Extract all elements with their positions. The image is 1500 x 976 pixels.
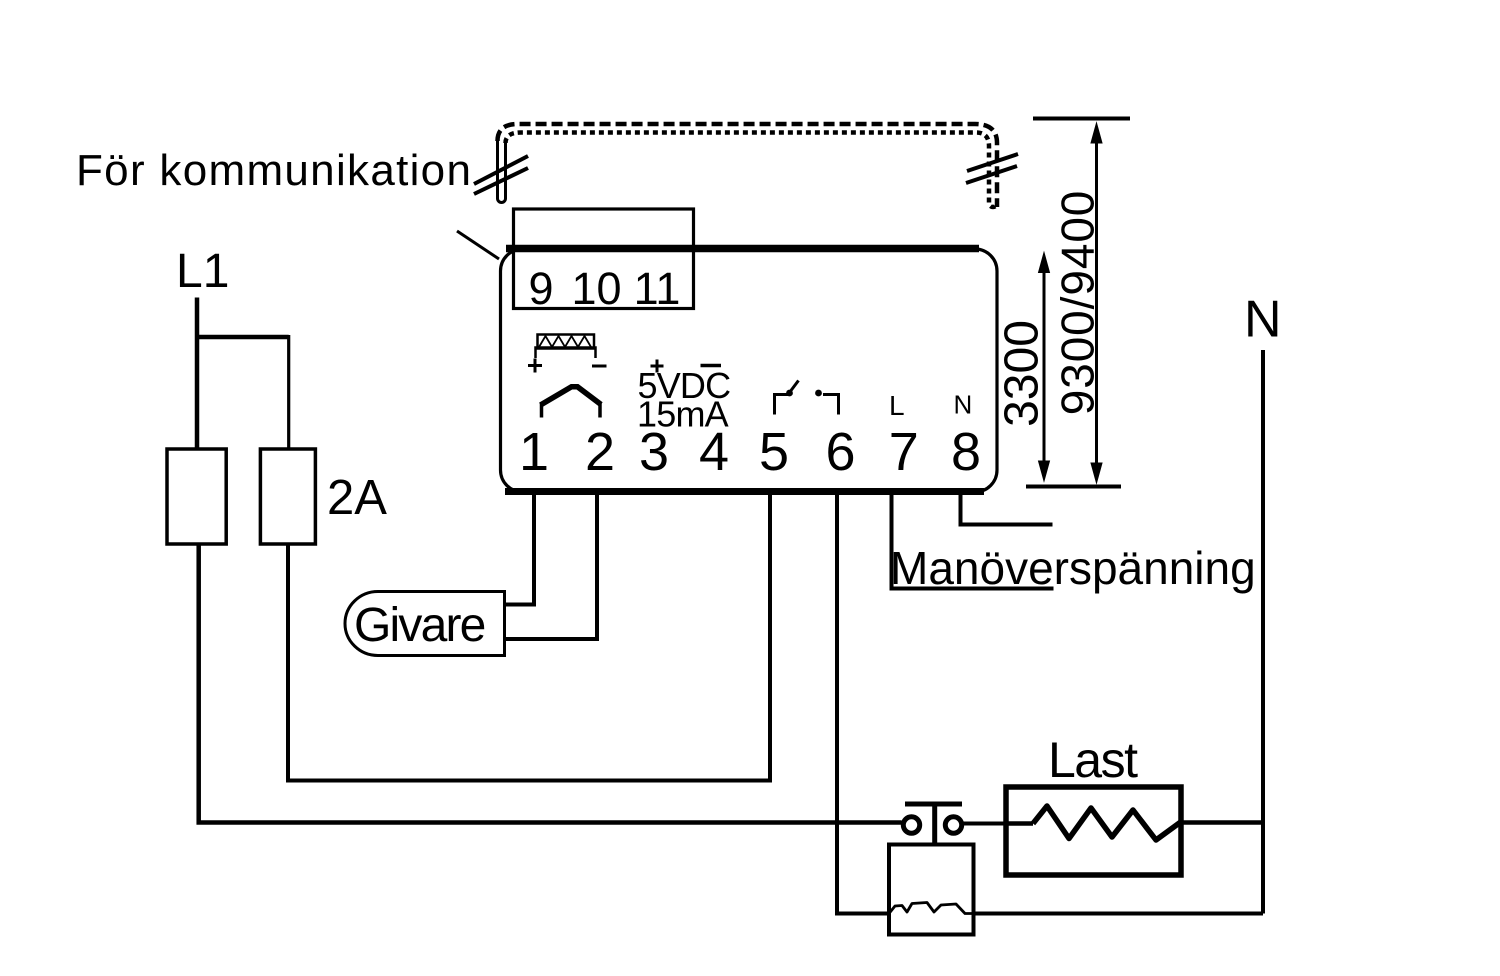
bracket under heater <box>536 348 596 359</box>
svg-text:För kommunikation: För kommunikation <box>76 146 472 195</box>
svg-text:2A: 2A <box>327 471 387 525</box>
bottom rail right of transformer to N <box>974 912 1264 916</box>
svg-text:4: 4 <box>699 422 729 482</box>
dimension top tick <box>1033 117 1130 121</box>
svg-text:9300/9400: 9300/9400 <box>1052 190 1104 416</box>
left fuse <box>167 449 226 544</box>
device box outline <box>501 249 998 492</box>
communication cable: inner dotted loop <box>506 133 998 208</box>
svg-text:7: 7 <box>889 422 919 482</box>
svg-text:2: 2 <box>585 422 615 482</box>
svg-text:1: 1 <box>519 422 549 482</box>
svg-text:3300: 3300 <box>996 320 1049 427</box>
Givare box <box>345 592 504 656</box>
svg-text:6: 6 <box>825 422 855 482</box>
shield-break slashes right <box>967 154 1018 171</box>
wire terminal 5 to right fuse <box>288 492 770 781</box>
wire terminal 2 to Givare <box>504 492 597 639</box>
inner dimension line 3300 <box>1043 258 1046 475</box>
svg-text:Last: Last <box>1048 732 1138 788</box>
svg-text:N: N <box>1244 291 1282 349</box>
communication cable: left vertical pair (solid) <box>498 140 506 203</box>
N wire <box>1261 350 1265 914</box>
svg-text:3: 3 <box>639 422 669 482</box>
transformer box <box>889 845 974 935</box>
branch wire to right fuse <box>195 335 289 340</box>
svg-text:10: 10 <box>571 263 621 314</box>
wire down to right fuse <box>287 335 290 449</box>
right fuse <box>260 449 315 544</box>
wire terminal 1 to Givare <box>504 492 534 605</box>
svg-text:8: 8 <box>951 422 981 482</box>
coil inside transformer <box>889 903 974 914</box>
svg-text:N: N <box>954 390 973 420</box>
terminal box 9 10 11 <box>514 209 694 309</box>
minus sign right <box>592 365 607 368</box>
push button contacts <box>903 817 919 833</box>
svg-text:Givare: Givare <box>354 599 485 652</box>
device thick top edge <box>506 245 979 253</box>
wire terminal 7 to underline <box>890 492 894 589</box>
dimension bottom tick <box>1026 485 1121 489</box>
minus over 5VDC <box>701 364 722 368</box>
Last load box <box>1006 787 1181 875</box>
svg-text:5: 5 <box>759 422 789 482</box>
push button T bar <box>905 804 962 845</box>
plus sign left <box>528 359 542 373</box>
relay contact over terminal 6 <box>815 390 822 397</box>
L1 wire <box>195 298 200 450</box>
wire terminal 6 down to bottom rail <box>837 492 889 914</box>
outer dimension line 9300/9400 <box>1095 130 1098 475</box>
heater rect with sawtooth <box>538 335 595 349</box>
underline of Manoverspanning <box>890 587 1054 591</box>
svg-text:9: 9 <box>528 263 553 314</box>
svg-text:L: L <box>889 390 905 421</box>
wire terminal 8 <box>961 492 1053 525</box>
plus over 5VDC <box>651 360 664 373</box>
communication cable: outer dashed loop <box>498 124 998 207</box>
wire Last to N <box>1181 820 1263 825</box>
device thick bottom edge <box>505 488 984 495</box>
svg-text:L1: L1 <box>176 245 229 298</box>
relay contact over terminal 5 <box>775 395 789 415</box>
wire into zigzag <box>1006 821 1033 826</box>
svg-text:Manöverspänning: Manöverspänning <box>890 542 1256 594</box>
shield-break slashes left <box>474 156 528 184</box>
sensor tent symbol <box>540 403 544 418</box>
left wire below fuse to switch <box>199 544 902 823</box>
leader line to device corner <box>457 231 499 259</box>
wire switch to Last <box>961 822 1008 826</box>
zigzag resistor <box>1033 806 1180 840</box>
re-draw thick top over box <box>514 245 694 253</box>
svg-text:11: 11 <box>634 263 681 314</box>
